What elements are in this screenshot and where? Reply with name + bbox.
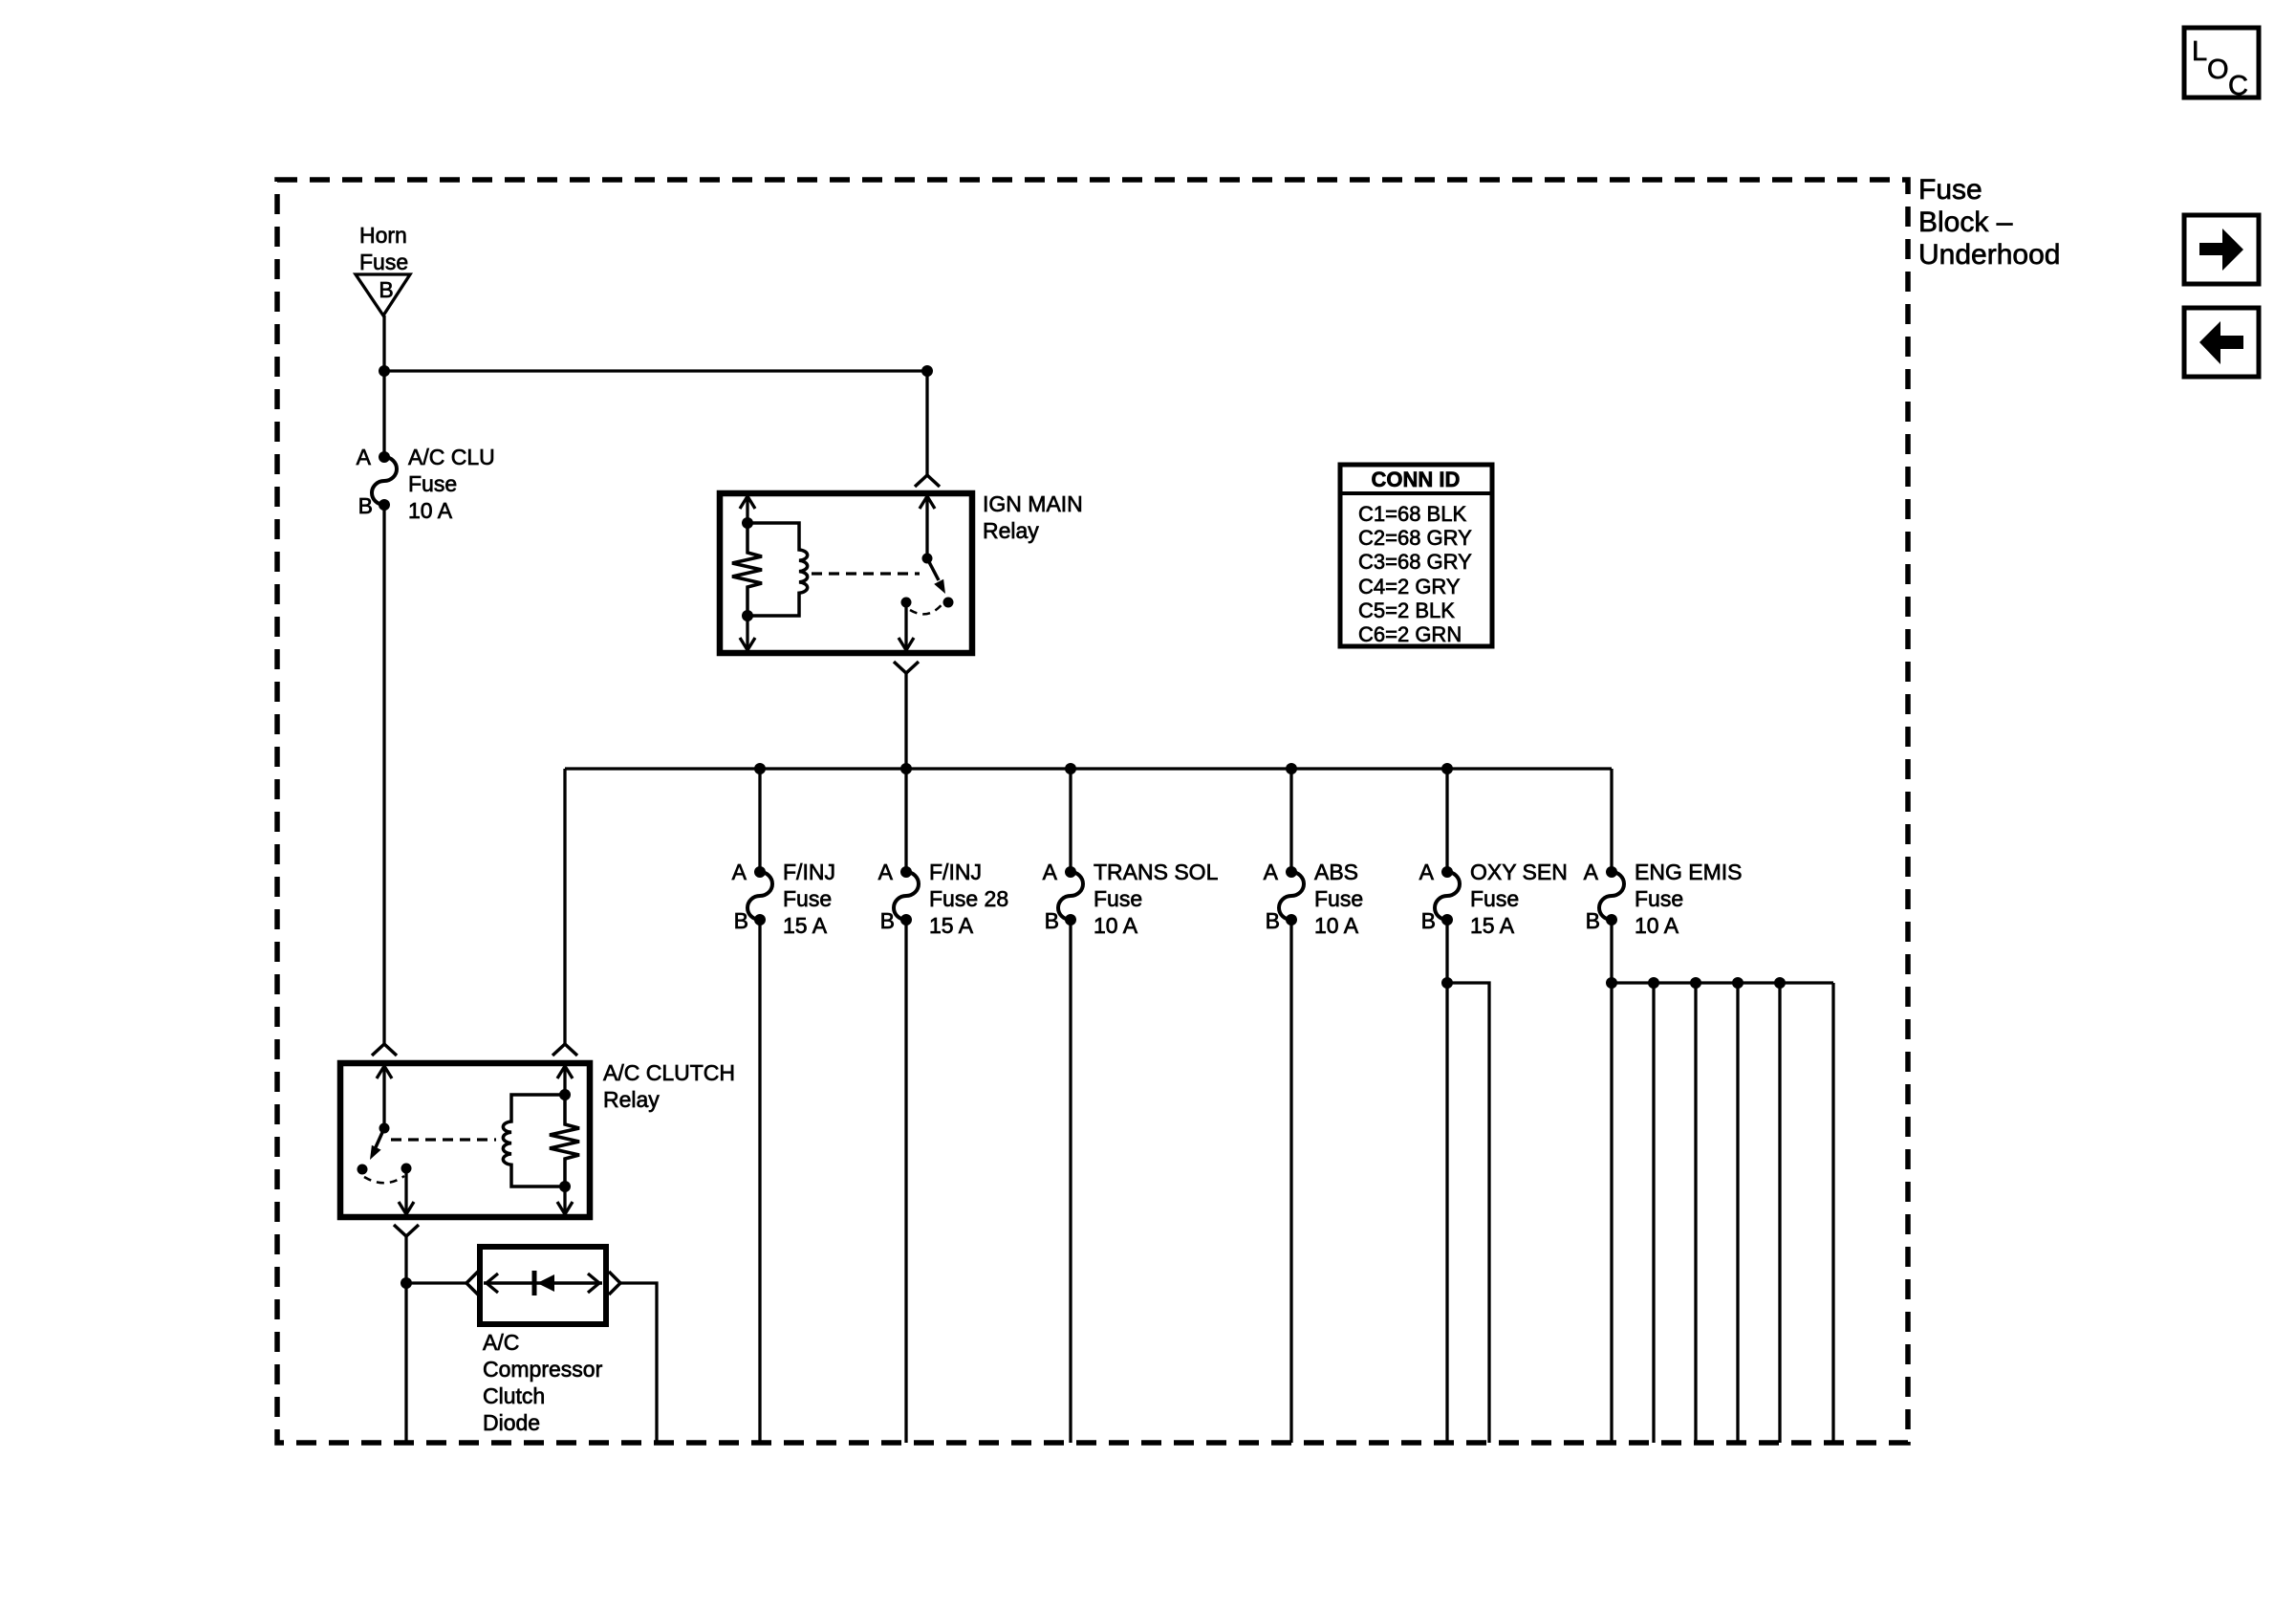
fuse F/INJ 28 15A	[878, 860, 1008, 938]
svg-text:A: A	[1584, 860, 1599, 884]
svg-text:F/INJ: F/INJ	[929, 860, 982, 884]
svg-text:C6=2 GRN: C6=2 GRN	[1358, 622, 1462, 646]
fuse A/C CLU 10A	[357, 445, 495, 523]
svg-text:B: B	[1045, 908, 1059, 933]
node corner feed wire	[921, 365, 933, 377]
svg-text:Fuse: Fuse	[1918, 174, 1982, 206]
svg-text:A: A	[357, 445, 372, 469]
svg-text:B: B	[358, 493, 373, 518]
wire F/INJ 28 fuse output	[904, 920, 907, 1443]
wire feed to IGN MAIN relay	[384, 369, 927, 372]
fuse ABS 10A	[1264, 860, 1363, 938]
icon LOC	[2184, 28, 2259, 101]
svg-text:Fuse: Fuse	[359, 250, 408, 274]
svg-text:IGN MAIN: IGN MAIN	[983, 491, 1083, 516]
svg-text:A: A	[1264, 860, 1279, 884]
wire F/INJ fuse output	[758, 920, 761, 1443]
svg-text:A/C: A/C	[483, 1330, 519, 1355]
svg-text:10 A: 10 A	[1635, 913, 1679, 938]
wire bus to OXY SEN fuse	[1445, 769, 1448, 872]
wire bus to F/INJ 28 fuse	[904, 769, 907, 872]
node bus junction F/INJ 28	[900, 763, 912, 774]
svg-text:C3=68 GRY: C3=68 GRY	[1358, 550, 1472, 574]
wire ENG EMIS branch drop 5	[1778, 983, 1781, 1443]
svg-text:B: B	[1266, 908, 1280, 933]
relay IGN MAIN box	[720, 491, 1083, 653]
svg-text:Fuse 28: Fuse 28	[929, 886, 1008, 911]
node ENG EMIS branch junction 5	[1774, 977, 1786, 989]
icon arrow right	[2184, 215, 2259, 284]
node ENG EMIS branch junction 1	[1606, 977, 1617, 989]
svg-text:C2=68 GRY: C2=68 GRY	[1358, 526, 1472, 550]
connector chevron below IGN MAIN relay	[894, 662, 919, 673]
fuse ENG EMIS 10A	[1584, 860, 1743, 938]
svg-text:Relay: Relay	[983, 518, 1039, 543]
wire bus	[565, 767, 1612, 770]
resistor IGN MAIN relay coil-suppression	[732, 496, 762, 650]
connector chevron left of diode	[466, 1272, 478, 1295]
node bus junction F/INJ	[754, 763, 766, 774]
connector chevron below A/C CLUTCH relay	[394, 1225, 419, 1236]
svg-text:C1=68 BLK: C1=68 BLK	[1358, 502, 1466, 526]
svg-text:C5=2 BLK: C5=2 BLK	[1358, 599, 1455, 622]
svg-text:Fuse: Fuse	[1470, 886, 1519, 911]
node junction relay output / diode	[401, 1277, 412, 1289]
svg-text:A/C CLUTCH: A/C CLUTCH	[603, 1060, 735, 1085]
svg-text:Block –: Block –	[1918, 207, 2013, 238]
svg-text:Fuse: Fuse	[408, 471, 457, 496]
svg-text:OXY SEN: OXY SEN	[1470, 860, 1568, 884]
svg-text:15 A: 15 A	[1470, 913, 1515, 938]
svg-text:Fuse: Fuse	[1635, 886, 1683, 911]
wire diode to ground drop	[620, 1283, 657, 1443]
resistor A/C CLUTCH relay coil-suppression	[550, 1066, 579, 1214]
node bus junction ABS	[1286, 763, 1297, 774]
svg-text:B: B	[734, 908, 748, 933]
svg-text:ABS: ABS	[1314, 860, 1358, 884]
svg-text:A: A	[878, 860, 894, 884]
svg-text:O: O	[2207, 54, 2229, 85]
svg-text:L: L	[2192, 36, 2207, 67]
wire TRANS SOL fuse output	[1069, 920, 1072, 1443]
icon arrow left	[2184, 308, 2259, 377]
wire ENG EMIS branch drop 2	[1652, 983, 1655, 1443]
svg-text:B: B	[1586, 908, 1600, 933]
diode A/C Compressor Clutch Diode	[480, 1247, 606, 1435]
node OXY SEN branch junction	[1441, 977, 1453, 989]
svg-text:Diode: Diode	[483, 1410, 540, 1435]
wire ENG EMIS branch header	[1612, 981, 1833, 984]
svg-text:Fuse: Fuse	[1314, 886, 1363, 911]
wire dashed actuation link A/C CLUTCH	[391, 1138, 496, 1141]
wire bus right drop to ENG EMIS fuse	[1610, 769, 1613, 872]
node ENG EMIS branch junction 4	[1732, 977, 1744, 989]
node junction horn wire / feed wire	[379, 365, 390, 377]
node ENG EMIS branch junction 2	[1648, 977, 1659, 989]
svg-text:B: B	[379, 277, 393, 302]
switch A/C CLUTCH relay	[357, 1066, 415, 1214]
svg-text:Fuse: Fuse	[1094, 886, 1142, 911]
wire bus left drop to A/C CLUTCH relay	[563, 769, 566, 1044]
svg-text:Underhood: Underhood	[1918, 239, 2060, 271]
svg-text:15 A: 15 A	[929, 913, 974, 938]
wire horn fuse drop	[382, 316, 385, 457]
connector B Horn Fuse triangle	[356, 274, 410, 316]
svg-text:A: A	[1043, 860, 1058, 884]
coil A/C CLUTCH relay winding	[503, 1095, 565, 1186]
wire ENG EMIS branch drop 3	[1694, 983, 1697, 1443]
wire OXY SEN fuse output	[1445, 920, 1448, 1443]
wire IGN MAIN relay output to bus	[904, 673, 907, 769]
svg-text:C4=2 GRY: C4=2 GRY	[1358, 575, 1461, 599]
wire dashed actuation link IGN MAIN	[812, 572, 920, 575]
svg-text:B: B	[1421, 908, 1436, 933]
wire junction to diode	[406, 1281, 466, 1284]
svg-text:Relay: Relay	[603, 1087, 660, 1112]
svg-text:ENG EMIS: ENG EMIS	[1635, 860, 1742, 884]
svg-text:F/INJ: F/INJ	[783, 860, 835, 884]
node bus junction OXY SEN	[1441, 763, 1453, 774]
fuse block dashed border	[277, 180, 1908, 1443]
connector chevron right of diode	[609, 1272, 620, 1295]
wire down to IGN MAIN relay pin	[925, 371, 928, 475]
svg-text:TRANS SOL: TRANS SOL	[1094, 860, 1219, 884]
wire bus to ABS fuse	[1289, 769, 1292, 872]
svg-text:Clutch: Clutch	[483, 1383, 545, 1408]
label Horn Fuse	[359, 223, 408, 274]
svg-text:Horn: Horn	[359, 223, 407, 248]
node ENG EMIS branch junction 3	[1690, 977, 1701, 989]
wire ENG EMIS branch drop 4	[1736, 983, 1739, 1443]
svg-text:10 A: 10 A	[408, 498, 453, 523]
svg-text:Fuse: Fuse	[783, 886, 832, 911]
fuse OXY SEN 15A	[1419, 860, 1568, 938]
svg-text:A: A	[732, 860, 747, 884]
connector chevron above IGN MAIN relay	[915, 475, 940, 487]
label Fuse Block - Underhood	[1918, 174, 2060, 271]
wire ENG EMIS fuse output	[1610, 920, 1613, 1443]
connector chevron above A/C CLUTCH relay right pin	[552, 1044, 577, 1056]
svg-text:Compressor: Compressor	[483, 1357, 603, 1382]
wire OXY SEN branch	[1447, 983, 1489, 1443]
svg-text:A/C CLU: A/C CLU	[408, 445, 495, 469]
svg-text:A: A	[1419, 860, 1435, 884]
wire A/C CLU fuse to A/C CLUTCH relay	[382, 505, 385, 1044]
fuse TRANS SOL 10A	[1043, 860, 1219, 938]
fuse F/INJ 15A	[732, 860, 835, 938]
wire A/C CLUTCH relay output	[404, 1236, 407, 1283]
connector chevron above A/C CLUTCH relay left pin	[372, 1044, 397, 1056]
wire ABS fuse output	[1289, 920, 1292, 1443]
svg-text:CONN ID: CONN ID	[1372, 468, 1461, 491]
svg-text:15 A: 15 A	[783, 913, 828, 938]
coil IGN MAIN relay winding	[747, 523, 808, 616]
svg-text:C: C	[2228, 71, 2248, 101]
svg-text:10 A: 10 A	[1094, 913, 1138, 938]
table CONN ID	[1340, 465, 1492, 646]
svg-text:10 A: 10 A	[1314, 913, 1359, 938]
relay A/C CLUTCH box	[340, 1060, 735, 1217]
wire ENG EMIS branch drop 6	[1831, 983, 1834, 1443]
node bus junction TRANS SOL	[1065, 763, 1076, 774]
switch IGN MAIN relay	[899, 496, 954, 650]
wire bus to TRANS SOL fuse	[1069, 769, 1072, 872]
svg-text:B: B	[880, 908, 895, 933]
wire relay output to ground	[404, 1283, 407, 1443]
wire bus to F/INJ fuse	[758, 769, 761, 872]
